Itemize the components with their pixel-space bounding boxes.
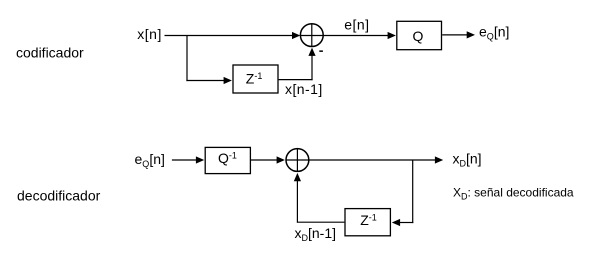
wire Q to output eQ[n] [442,34,467,36]
svg-text:e[n]: e[n] [344,16,369,32]
svg-text:x[n-1]: x[n-1] [285,81,323,97]
wire branch down from x[n] line [186,35,188,81]
wire branch to block Z-1 encoder [186,80,224,82]
block Z^-1 (decoder) [345,209,390,236]
svg-text:eQ[n]: eQ[n] [135,151,165,169]
wire x[n] to summing junction S1 [165,35,294,37]
svg-text:XD: señal decodificada: XD: señal decodificada [453,186,574,202]
svg-text:Q: Q [413,28,424,44]
svg-text:decodificador: decodificador [17,188,101,204]
wire feedback into block Z-1 decoder [400,222,413,224]
block Z^-1 (encoder) [233,65,278,93]
summing junction S2 [286,149,309,172]
svg-text:x[n]: x[n] [137,26,162,42]
minus sign at S1 [319,50,323,52]
wire eQ[n] to block Q-1 [172,159,196,161]
wire S2 to output xD[n] [309,159,435,161]
wire S1 to block Q [323,35,388,37]
wire Z-1 encoder output to S1 [279,79,313,81]
svg-text:codificador: codificador [16,45,84,61]
wire feedback branch down [412,160,414,223]
wire Q-1 to summing junction S2 [251,159,277,161]
svg-text:xD[n-1]: xD[n-1] [295,225,337,243]
svg-text:xD[n]: xD[n] [453,150,482,168]
wire Z-1 decoder output to S2 [298,221,344,223]
block Q [397,21,442,49]
svg-text:eQ[n]: eQ[n] [479,24,509,42]
block Q^-1 [205,147,250,173]
summing junction S1 [300,24,323,47]
